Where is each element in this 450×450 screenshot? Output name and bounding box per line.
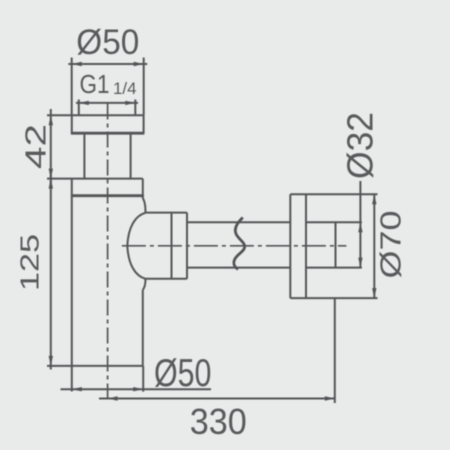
svg-text:G1: G1 <box>80 71 110 99</box>
42 dim line <box>50 109 52 183</box>
O50 top dim right extension <box>143 58 145 116</box>
body collar top edge with 42/125 extension <box>47 178 143 180</box>
svg-text:1/4: 1/4 <box>113 79 137 98</box>
inlet flange left edge <box>71 115 73 133</box>
arrow O70 up <box>372 194 376 204</box>
arrow 125 up <box>49 179 53 189</box>
body bottom edge with 125-dim extension <box>47 365 143 367</box>
svg-text:Ø50: Ø50 <box>154 352 212 395</box>
arrow O50-top right <box>134 62 144 66</box>
arrow O50-top left <box>72 62 82 66</box>
O70 dim line <box>373 194 375 299</box>
330 dim line <box>99 398 335 400</box>
O50 top dim line <box>68 63 147 65</box>
svg-text:Ø50: Ø50 <box>76 23 139 62</box>
svg-text:Ø32: Ø32 <box>340 112 381 179</box>
inlet pipe right wall <box>130 134 132 178</box>
vertical centerline <box>107 104 109 404</box>
inlet pipe left wall <box>83 134 85 178</box>
arrow O50-bottom right <box>133 387 143 391</box>
pipe bottom inside flange with O32 extension <box>306 267 362 269</box>
O32 dim line <box>359 181 361 268</box>
arrow 42 up <box>49 115 53 125</box>
body right wall upper stub <box>142 179 144 199</box>
svg-text:330: 330 <box>190 401 247 442</box>
inlet flange right edge <box>143 115 145 133</box>
horizontal centerline <box>122 245 347 247</box>
arrow 330 left <box>108 396 118 400</box>
union nut top edge <box>146 212 188 214</box>
wall flange top edge with O70 extension <box>290 193 377 195</box>
arrow 42 down <box>49 169 53 179</box>
arrow O32 up <box>358 222 362 232</box>
arrow 125 down <box>49 356 53 366</box>
pipe top inside flange with O32 extension <box>306 221 362 223</box>
top fillet body-to-nut <box>143 198 146 212</box>
svg-text:42: 42 <box>20 124 52 169</box>
arrow O32 down <box>358 258 362 268</box>
G1 dim left tick <box>78 100 80 116</box>
union nut right edge <box>186 213 188 279</box>
body collar bottom edge (thick) <box>71 194 144 197</box>
bottom O50 left extension <box>71 366 73 392</box>
union nut bottom edge <box>146 278 188 280</box>
body left wall <box>71 179 73 366</box>
arrow 330 right <box>325 396 335 400</box>
pipe end inside flange <box>335 222 337 267</box>
O50 top dim left extension <box>71 58 73 116</box>
arrow O50-bottom left <box>72 387 82 391</box>
pipe break squiggle <box>234 218 245 270</box>
arrow O70 down <box>372 288 376 298</box>
union nut division line <box>171 213 173 279</box>
bottom O50 right extension <box>142 366 144 392</box>
wall flange bottom edge with O70 extension <box>290 297 377 299</box>
wall flange rim line <box>305 194 307 298</box>
svg-text:125: 125 <box>15 234 44 291</box>
svg-text:Ø70: Ø70 <box>374 211 407 279</box>
inlet flange top edge with 42-dim extension <box>47 114 144 116</box>
inlet flange bottom edge (thick) <box>71 132 144 135</box>
G1 dim line <box>76 102 138 104</box>
union nut bell curve <box>127 213 145 279</box>
body right wall lower <box>142 290 144 366</box>
outlet pipe bottom wall <box>187 267 290 269</box>
G1 dim right tick <box>134 100 136 116</box>
bottom O50 dim line <box>61 388 212 390</box>
wall flange left edge <box>289 194 291 298</box>
arrow G1 right <box>125 101 135 105</box>
330 right extension <box>334 298 336 403</box>
arrow G1 left <box>79 101 89 105</box>
outlet pipe top wall <box>187 221 290 223</box>
bottom fillet nut-to-body <box>143 279 146 290</box>
125 dim line <box>50 175 52 370</box>
